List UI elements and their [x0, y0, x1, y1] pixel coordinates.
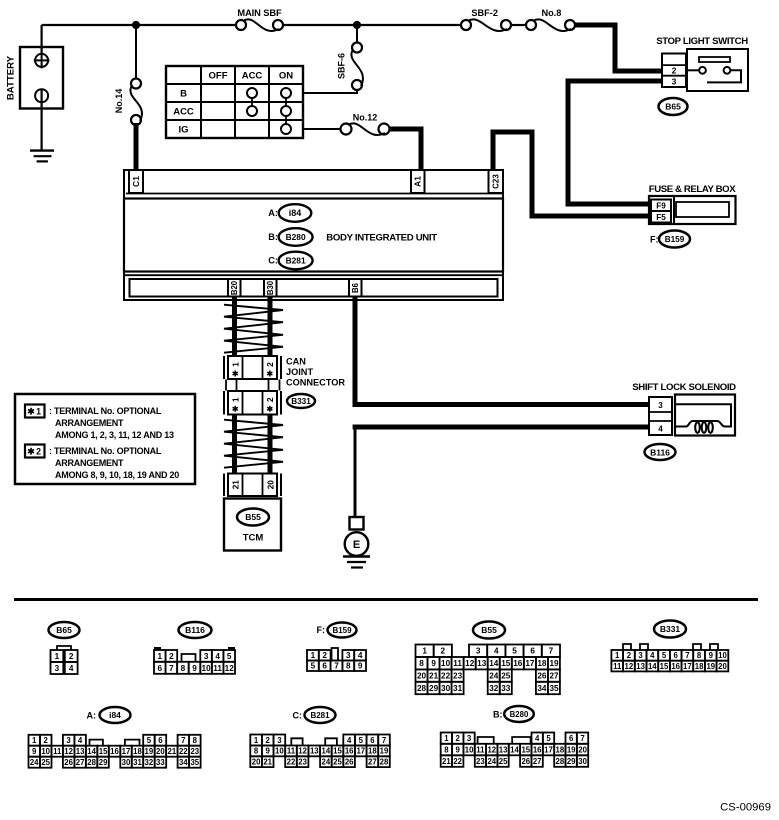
- svg-text:27: 27: [368, 758, 377, 767]
- svg-text:BATTERY: BATTERY: [6, 55, 17, 100]
- ground battery: [30, 151, 54, 162]
- svg-text:5: 5: [512, 647, 517, 656]
- svg-text:11: 11: [453, 659, 462, 668]
- wire bus SBF-2 to No.8: [512, 24, 526, 26]
- svg-text:2: 2: [36, 446, 41, 456]
- stop light switch: [686, 49, 748, 91]
- svg-text:B55: B55: [481, 625, 497, 635]
- svg-text:9: 9: [192, 664, 197, 673]
- svg-text:A1: A1: [413, 176, 423, 187]
- svg-text:6: 6: [569, 734, 574, 743]
- joint between connectors: [226, 380, 280, 391]
- wire No.8 to stop light switch pin 2: [576, 25, 663, 71]
- pin B20: [228, 279, 241, 297]
- svg-text:6: 6: [322, 662, 327, 671]
- connector CAN joint upper: [224, 356, 281, 379]
- separator line: [14, 598, 758, 601]
- svg-text:2: 2: [266, 736, 271, 745]
- svg-text:5: 5: [662, 651, 667, 660]
- svg-text:B159: B159: [665, 235, 685, 244]
- svg-text:SBF-6: SBF-6: [337, 53, 347, 79]
- svg-text:5: 5: [227, 652, 232, 661]
- connector stop light switch pins: [662, 54, 686, 88]
- svg-text:IG: IG: [178, 124, 188, 135]
- svg-text:2: 2: [322, 651, 327, 660]
- svg-text:10: 10: [718, 651, 727, 660]
- svg-text:4: 4: [215, 652, 220, 661]
- svg-text:15: 15: [333, 747, 342, 756]
- label A i84: [268, 204, 311, 222]
- node junction SBF-6 tap: [353, 21, 361, 29]
- svg-text:B281: B281: [286, 256, 306, 266]
- connector B116 pinout: [154, 647, 235, 674]
- wire CAN lower right down: [268, 415, 273, 475]
- svg-text:2: 2: [441, 647, 446, 656]
- svg-text:B65: B65: [665, 102, 681, 112]
- svg-text:4: 4: [69, 664, 74, 673]
- connector B280 pinout: [441, 733, 589, 767]
- svg-text:21: 21: [232, 480, 241, 490]
- svg-text:18: 18: [556, 745, 565, 754]
- svg-text:14: 14: [322, 747, 331, 756]
- svg-text:ARRANGEMENT: ARRANGEMENT: [55, 458, 124, 468]
- svg-text:3: 3: [277, 736, 282, 745]
- svg-text:25: 25: [501, 672, 511, 681]
- svg-text:11: 11: [476, 745, 485, 754]
- svg-text:12: 12: [487, 745, 496, 754]
- connector B55 pinout label: [473, 622, 505, 639]
- svg-text:1: 1: [444, 734, 449, 743]
- svg-text:15: 15: [501, 659, 511, 668]
- svg-text:2: 2: [44, 736, 49, 745]
- connector F B159 label: [650, 231, 690, 248]
- svg-text:13: 13: [477, 659, 487, 668]
- svg-text:26: 26: [345, 758, 354, 767]
- svg-text:20: 20: [252, 758, 261, 767]
- svg-text:33: 33: [501, 684, 511, 693]
- svg-text:ACC: ACC: [242, 70, 263, 81]
- svg-text:4: 4: [358, 651, 363, 660]
- fuse MAIN SBF: [236, 8, 283, 31]
- svg-text:7: 7: [334, 662, 339, 671]
- svg-text:4: 4: [650, 651, 655, 660]
- ground E bars: [343, 557, 370, 568]
- svg-text:16: 16: [671, 662, 680, 671]
- svg-text:7: 7: [181, 736, 185, 745]
- svg-text:35: 35: [549, 684, 559, 693]
- svg-text:27: 27: [76, 758, 85, 767]
- svg-text:30: 30: [122, 758, 131, 767]
- svg-text:9: 9: [358, 662, 363, 671]
- wire BIU B30 down: [268, 297, 273, 358]
- svg-text:28: 28: [417, 684, 427, 693]
- svg-text:: TERMINAL No. OPTIONAL: : TERMINAL No. OPTIONAL: [49, 446, 162, 456]
- svg-text:SHIFT LOCK SOLENOID: SHIFT LOCK SOLENOID: [632, 382, 736, 393]
- svg-text:16: 16: [110, 747, 119, 756]
- svg-text:9: 9: [709, 651, 714, 660]
- svg-text:31: 31: [133, 758, 142, 767]
- svg-text:A:: A:: [87, 711, 97, 721]
- svg-text:22: 22: [453, 757, 462, 766]
- svg-text:3: 3: [638, 651, 643, 660]
- svg-text:2: 2: [169, 652, 174, 661]
- svg-text:17: 17: [525, 659, 535, 668]
- svg-text:34: 34: [537, 684, 547, 693]
- svg-text:8: 8: [419, 659, 424, 668]
- svg-text:i84: i84: [109, 710, 121, 720]
- svg-text:2: 2: [627, 651, 632, 660]
- svg-text:20: 20: [578, 745, 587, 754]
- svg-text:5: 5: [359, 736, 364, 745]
- svg-text:33: 33: [156, 758, 165, 767]
- connector B55 pinout: [416, 645, 561, 695]
- svg-text:B116: B116: [185, 625, 205, 635]
- svg-text:B281: B281: [310, 711, 330, 720]
- svg-text:8: 8: [697, 651, 702, 660]
- svg-text:12: 12: [64, 747, 73, 756]
- twisted pair upper: [224, 305, 283, 353]
- svg-text:2: 2: [69, 652, 74, 661]
- svg-text:27: 27: [549, 672, 559, 681]
- connector TCM pins 21 20: [224, 474, 281, 497]
- svg-text:ARRANGEMENT: ARRANGEMENT: [55, 418, 124, 428]
- svg-text:4: 4: [78, 736, 83, 745]
- connector B65 pinout label: [49, 622, 80, 638]
- svg-text:FUSE & RELAY BOX: FUSE & RELAY BOX: [649, 184, 737, 195]
- svg-text:26: 26: [521, 757, 530, 766]
- svg-text:17: 17: [683, 662, 692, 671]
- svg-text:B: B: [180, 88, 187, 99]
- svg-text:3: 3: [672, 76, 677, 86]
- svg-text:3: 3: [66, 736, 71, 745]
- svg-text:18: 18: [368, 747, 377, 756]
- svg-text:16: 16: [345, 747, 354, 756]
- svg-text:7: 7: [685, 651, 689, 660]
- svg-text:20: 20: [156, 747, 165, 756]
- svg-text:SBF-2: SBF-2: [471, 8, 498, 18]
- svg-text:12: 12: [465, 659, 475, 668]
- svg-text:8: 8: [193, 736, 198, 745]
- wire No.12 to BIU A1: [390, 129, 422, 171]
- svg-text:: TERMINAL No. OPTIONAL: : TERMINAL No. OPTIONAL: [49, 406, 162, 416]
- svg-text:F:: F:: [650, 235, 659, 245]
- svg-text:B65: B65: [56, 625, 72, 635]
- svg-text:30: 30: [441, 684, 451, 693]
- wire BIU C23 to fuse F5: [493, 132, 652, 216]
- pin B6: [349, 279, 362, 297]
- svg-text:7: 7: [382, 736, 386, 745]
- svg-text:B30: B30: [266, 280, 275, 295]
- svg-text:9: 9: [431, 659, 436, 668]
- connector B65 pinout: [51, 646, 78, 674]
- svg-text:i84: i84: [289, 208, 302, 218]
- svg-text:12: 12: [625, 662, 634, 671]
- fuse SBF-6: [337, 43, 363, 91]
- connector ground E: [345, 517, 369, 556]
- svg-text:1: 1: [55, 652, 60, 661]
- svg-text:6: 6: [530, 647, 535, 656]
- svg-text:3: 3: [55, 664, 60, 673]
- svg-text:25: 25: [499, 757, 508, 766]
- connector B331 pinout label: [654, 621, 686, 638]
- svg-text:31: 31: [453, 684, 463, 693]
- svg-text:18: 18: [537, 659, 547, 668]
- svg-text:B280: B280: [510, 710, 529, 719]
- svg-text:17: 17: [544, 745, 553, 754]
- svg-text:30: 30: [578, 757, 587, 766]
- svg-text:23: 23: [476, 757, 485, 766]
- wire SBF-6 to switch table row B: [303, 90, 357, 93]
- svg-text:1: 1: [230, 362, 240, 367]
- svg-text:22: 22: [441, 672, 451, 681]
- svg-text:17: 17: [122, 747, 131, 756]
- svg-text:B331: B331: [291, 397, 311, 406]
- svg-text:18: 18: [133, 747, 142, 756]
- connector B281 pinout: [250, 735, 390, 768]
- svg-text:CONNECTOR: CONNECTOR: [286, 378, 345, 388]
- svg-text:A:: A:: [268, 208, 278, 218]
- svg-text:13: 13: [636, 662, 645, 671]
- svg-text:6: 6: [674, 651, 679, 660]
- svg-text:B159: B159: [332, 626, 352, 635]
- svg-text:19: 19: [549, 659, 559, 668]
- connector i84 pinout label: [87, 707, 131, 723]
- svg-text:24: 24: [489, 672, 499, 681]
- connector B280 pinout label: [493, 706, 534, 722]
- svg-text:B6: B6: [351, 282, 360, 293]
- svg-text:11: 11: [613, 662, 622, 671]
- svg-text:28: 28: [556, 757, 565, 766]
- svg-text:24: 24: [322, 758, 331, 767]
- svg-text:19: 19: [706, 662, 715, 671]
- svg-text:No.12: No.12: [353, 113, 378, 123]
- svg-text:24: 24: [30, 758, 39, 767]
- svg-text:6: 6: [158, 736, 163, 745]
- svg-text:25: 25: [41, 758, 50, 767]
- svg-text:2: 2: [265, 362, 275, 367]
- svg-text:24: 24: [487, 757, 496, 766]
- svg-text:19: 19: [567, 745, 576, 754]
- svg-text:18: 18: [695, 662, 704, 671]
- connector B65 label: [659, 98, 688, 115]
- svg-text:15: 15: [660, 662, 669, 671]
- fuse No.12: [341, 113, 390, 135]
- svg-text:11: 11: [213, 664, 222, 673]
- battery: [6, 25, 64, 150]
- svg-text:ACC: ACC: [173, 106, 194, 117]
- wire bus MAIN SBF to SBF-2: [284, 24, 461, 26]
- svg-text:C:: C:: [293, 711, 303, 721]
- svg-text:E: E: [353, 539, 360, 551]
- svg-text:B116: B116: [650, 448, 670, 458]
- svg-text:B:: B:: [493, 709, 503, 719]
- svg-text:26: 26: [64, 758, 73, 767]
- svg-text:10: 10: [441, 659, 451, 668]
- connector i84 pinout: [29, 735, 201, 768]
- svg-text:B20: B20: [230, 280, 239, 295]
- svg-text:No.14: No.14: [114, 89, 124, 114]
- svg-text:1: 1: [422, 647, 427, 656]
- svg-text:20: 20: [718, 662, 727, 671]
- pin A1: [411, 170, 425, 193]
- shift lock solenoid: [675, 395, 735, 436]
- node junction No.14 tap: [132, 21, 140, 29]
- pin C23: [489, 170, 504, 193]
- svg-text:1: 1: [158, 652, 163, 661]
- connector B116 pinout label: [179, 622, 212, 638]
- svg-text:CAN: CAN: [286, 357, 306, 367]
- connector B116 label: [645, 444, 676, 460]
- connector B331 pinout: [611, 644, 728, 671]
- wire junction to fuse No.14: [135, 25, 137, 78]
- wire BIU B6 to solenoid pin 3: [355, 297, 649, 405]
- svg-text:5: 5: [147, 736, 152, 745]
- wire No.14 to BIU C1: [134, 123, 139, 171]
- svg-text:2: 2: [672, 66, 677, 76]
- svg-text:F9: F9: [656, 202, 666, 211]
- fuse No.8: [526, 8, 575, 31]
- svg-text:20: 20: [267, 480, 276, 490]
- svg-text:6: 6: [370, 736, 375, 745]
- connector B331 label: [287, 394, 315, 408]
- svg-text:16: 16: [513, 659, 523, 668]
- wire BIU B20 down: [232, 297, 237, 358]
- svg-text:7: 7: [580, 734, 584, 743]
- svg-text:F:: F:: [317, 625, 326, 635]
- svg-text:STOP LIGHT SWITCH: STOP LIGHT SWITCH: [656, 36, 748, 47]
- svg-text:11: 11: [287, 747, 296, 756]
- svg-text:15: 15: [521, 745, 530, 754]
- svg-text:27: 27: [533, 757, 542, 766]
- svg-text:13: 13: [499, 745, 508, 754]
- svg-text:29: 29: [567, 757, 576, 766]
- svg-text:3: 3: [658, 401, 663, 410]
- connector B281 pinout label: [293, 707, 336, 723]
- fuse and relay box: [649, 184, 737, 224]
- svg-text:13: 13: [310, 747, 319, 756]
- svg-text:17: 17: [356, 747, 365, 756]
- svg-text:19: 19: [380, 747, 389, 756]
- svg-text:14: 14: [510, 745, 519, 754]
- svg-text:3: 3: [346, 651, 351, 660]
- svg-text:ON: ON: [279, 70, 293, 81]
- svg-text:32: 32: [145, 758, 154, 767]
- svg-text:1: 1: [311, 651, 316, 660]
- svg-text:29: 29: [429, 684, 439, 693]
- ignition switch table: [166, 66, 303, 138]
- svg-text:2: 2: [456, 734, 461, 743]
- svg-text:7: 7: [169, 664, 174, 673]
- svg-text:1: 1: [615, 651, 620, 660]
- svg-text:7: 7: [549, 647, 554, 656]
- svg-text:1: 1: [36, 406, 41, 416]
- svg-text:23: 23: [298, 758, 307, 767]
- svg-text:14: 14: [87, 747, 96, 756]
- svg-text:AMONG 8, 9, 10, 18, 19 AND 20: AMONG 8, 9, 10, 18, 19 AND 20: [55, 470, 179, 480]
- svg-text:4: 4: [658, 425, 663, 434]
- svg-text:34: 34: [179, 758, 188, 767]
- svg-text:10: 10: [275, 747, 284, 756]
- svg-text:9: 9: [32, 747, 37, 756]
- svg-text:4: 4: [494, 647, 499, 656]
- svg-text:5: 5: [546, 734, 551, 743]
- svg-text:F5: F5: [656, 213, 666, 222]
- svg-text:21: 21: [442, 757, 451, 766]
- svg-text:35: 35: [190, 758, 199, 767]
- wire down to ground E: [354, 427, 357, 518]
- svg-text:1: 1: [254, 736, 259, 745]
- svg-text:10: 10: [465, 745, 474, 754]
- svg-text:C:: C:: [268, 256, 278, 266]
- connector B159 pinout label: [317, 623, 357, 638]
- svg-text:10: 10: [202, 664, 212, 673]
- wire junction to SBF-6: [356, 25, 358, 42]
- svg-text:3: 3: [476, 647, 481, 656]
- svg-text:19: 19: [145, 747, 154, 756]
- wire solenoid pin 4 to ground: [353, 425, 649, 430]
- svg-text:9: 9: [456, 745, 461, 754]
- svg-text:21: 21: [263, 758, 272, 767]
- svg-text:CS-00969: CS-00969: [720, 802, 771, 814]
- connector shift lock solenoid pins: [649, 397, 672, 435]
- svg-text:8: 8: [181, 664, 186, 673]
- svg-text:25: 25: [333, 758, 342, 767]
- svg-text:3: 3: [467, 734, 472, 743]
- svg-text:MAIN SBF: MAIN SBF: [237, 8, 282, 18]
- svg-text:10: 10: [41, 747, 50, 756]
- svg-text:16: 16: [533, 745, 542, 754]
- svg-text:2: 2: [265, 397, 275, 402]
- svg-text:B280: B280: [286, 232, 306, 242]
- fuse SBF-2: [461, 8, 511, 31]
- label CAN joint connector: [286, 357, 345, 388]
- svg-text:B331: B331: [660, 624, 681, 634]
- twisted pair lower: [224, 420, 283, 468]
- svg-text:B55: B55: [245, 512, 261, 522]
- svg-text:13: 13: [76, 747, 85, 756]
- svg-text:32: 32: [489, 684, 499, 693]
- svg-text:22: 22: [287, 758, 296, 767]
- svg-text:28: 28: [87, 758, 96, 767]
- svg-text:4: 4: [535, 734, 540, 743]
- pin B30: [264, 279, 277, 297]
- svg-text:29: 29: [99, 758, 108, 767]
- label B B280: [268, 228, 312, 246]
- svg-text:12: 12: [225, 664, 235, 673]
- svg-text:JOINT: JOINT: [286, 367, 313, 377]
- svg-text:22: 22: [179, 747, 188, 756]
- wire stop light switch pin 3 to fuse F9: [568, 81, 662, 204]
- svg-text:23: 23: [453, 672, 463, 681]
- svg-text:8: 8: [444, 745, 449, 754]
- svg-text:6: 6: [158, 664, 163, 673]
- svg-text:21: 21: [168, 747, 177, 756]
- svg-text:23: 23: [190, 747, 199, 756]
- svg-text:21: 21: [429, 672, 439, 681]
- svg-text:OFF: OFF: [209, 70, 228, 81]
- connector B159 pinout: [307, 648, 366, 671]
- connector CAN joint lower: [224, 391, 281, 415]
- wire table IG to fuse No.12: [303, 128, 341, 130]
- svg-text:1: 1: [230, 397, 240, 402]
- svg-text:BODY INTEGRATED UNIT: BODY INTEGRATED UNIT: [326, 232, 437, 243]
- svg-text:14: 14: [489, 659, 499, 668]
- TCM: [224, 499, 281, 551]
- svg-text:12: 12: [298, 747, 307, 756]
- svg-text:8: 8: [346, 662, 351, 671]
- svg-text:No.8: No.8: [541, 8, 561, 18]
- wire main bus from battery: [42, 24, 236, 26]
